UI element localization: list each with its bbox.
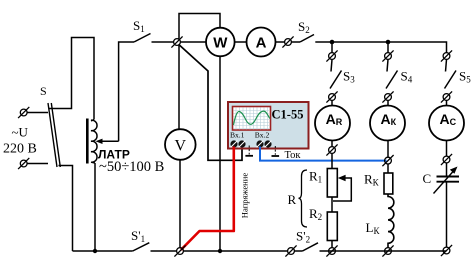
switch S'2 blade — [303, 243, 319, 251]
wire — [331, 60, 332, 72]
junction dot (K branch) — [386, 40, 391, 45]
switch S (double-pole blades) — [48, 103, 60, 167]
autotransformer ЛАТР core bar — [86, 119, 89, 164]
wire — [387, 164, 389, 173]
svg-text:W: W — [213, 34, 228, 51]
terminal — [441, 91, 452, 102]
terminal (C branch bottom) — [441, 245, 452, 256]
terminal X2 (~U input bottom) — [18, 158, 29, 169]
wire (capacitor to bus) — [446, 183, 448, 248]
wire (tap up to S1) — [119, 42, 134, 141]
resistor R2 — [327, 212, 337, 241]
svg-text:A: A — [256, 34, 267, 51]
wire — [28, 163, 49, 165]
wire (S1 to node) — [152, 41, 174, 43]
capacitor variable arrow — [434, 167, 458, 194]
terminal — [326, 91, 337, 102]
wire (R1 to R2) — [331, 197, 333, 212]
wire — [331, 101, 333, 106]
resistor R1 — [327, 169, 337, 198]
wire — [446, 141, 448, 157]
ground symbol (ch2) — [272, 146, 280, 156]
switch S1 blade — [134, 34, 151, 43]
resistor RK — [384, 173, 393, 194]
svg-text:V: V — [175, 138, 187, 155]
wire — [446, 60, 447, 72]
terminal (blue wire junction) — [382, 155, 393, 166]
top bus wire — [315, 42, 446, 53]
C branch: terminal below top bus corner — [441, 50, 452, 61]
terminal (K branch bottom) — [382, 245, 393, 256]
wire (winding bottom to bottom bus) — [94, 163, 96, 251]
red wire (scope voltage probe) — [181, 147, 234, 250]
svg-text:~50÷100 В: ~50÷100 В — [99, 159, 164, 175]
junction dot (R branch) — [330, 40, 335, 45]
wire (node to W) — [181, 41, 206, 43]
wire (R2 to bus) — [331, 241, 333, 248]
switch S5 blade — [445, 71, 457, 89]
svg-text:Вх.1: Вх.1 — [230, 131, 245, 140]
svg-text:~U: ~U — [12, 125, 29, 140]
wire — [446, 101, 448, 106]
wire (upper pole to primary loop) — [49, 38, 94, 120]
terminal — [382, 91, 393, 102]
terminal (S2 left) — [282, 36, 293, 47]
ammeter A — [247, 28, 276, 57]
scope terminal Вх.2 b — [265, 141, 272, 148]
oscilloscope C1-55 body — [228, 102, 309, 149]
ammeter AC — [429, 106, 464, 141]
node terminal (bottom left) — [174, 245, 185, 256]
wire (W to A) — [235, 41, 247, 43]
blue wire (scope current probe Ток) — [260, 147, 387, 161]
capacitor C plates — [437, 177, 460, 182]
terminal — [441, 154, 452, 165]
terminal X1 (~U input top) — [18, 107, 29, 118]
svg-text:220 В: 220 В — [3, 142, 37, 157]
wattmeter W — [206, 28, 235, 57]
terminal — [382, 50, 393, 61]
terminal — [326, 50, 337, 61]
wire (V branch from node) — [178, 46, 180, 130]
scope terminal Вх.1 b — [239, 141, 246, 148]
bottom bus wire (right section) — [320, 250, 447, 252]
wire — [331, 141, 333, 147]
junction dot — [218, 249, 222, 253]
ЛАТР tap arrow — [96, 139, 119, 144]
wire — [387, 60, 388, 72]
svg-text:S: S — [40, 84, 47, 98]
wire (W current coil down to bottom bus) — [219, 56, 221, 251]
svg-text:Вх.2: Вх.2 — [255, 131, 270, 140]
potentiometer wiper arrow — [333, 175, 351, 201]
ammeter AK — [370, 106, 405, 141]
switch S'1 blade — [133, 243, 150, 251]
wire (scope ch1 to top node: diagonal and down) — [179, 44, 243, 160]
switch S2 blade — [300, 35, 314, 43]
wire — [295, 250, 303, 252]
terminal — [326, 144, 337, 155]
bottom bus wire (left of S'1) — [73, 250, 133, 252]
bottom bus wire (S'1 to node) — [151, 250, 177, 252]
autotransformer ЛАТР winding — [91, 120, 97, 164]
wire (A to S2 terminal) — [276, 41, 285, 43]
R branch: wire from bus dot — [331, 42, 333, 53]
oscilloscope screen — [233, 107, 271, 131]
svg-text:С1-55: С1-55 — [272, 108, 304, 122]
switch S3 blade — [330, 71, 342, 89]
wattmeter voltage-coil loop — [179, 14, 220, 39]
svg-text:Ток: Ток — [285, 150, 302, 161]
scope terminal Вх.2 a — [257, 141, 264, 148]
ammeter AR — [315, 106, 350, 141]
terminal (R branch bottom) — [326, 245, 337, 256]
K branch: wire from bus dot — [387, 42, 389, 53]
junction dot — [93, 249, 97, 253]
inductor LK — [388, 194, 394, 248]
wire — [331, 154, 333, 169]
svg-text:С: С — [423, 171, 432, 186]
node terminal (top left) — [171, 36, 182, 47]
wire — [28, 112, 49, 114]
scope terminal Вх.1 a — [231, 141, 238, 148]
voltmeter V — [165, 129, 196, 160]
wire (lower pole down to bottom bus) — [59, 166, 73, 252]
bottom bus wire (node to S'2) — [184, 250, 288, 252]
svg-text:Напряжение: Напряжение — [240, 173, 250, 219]
terminal (S'2 left) — [285, 245, 296, 256]
svg-text:R: R — [288, 192, 297, 207]
switch S4 blade — [386, 71, 398, 89]
wire — [387, 101, 389, 106]
wire (V down to bottom node) — [179, 160, 181, 248]
wire — [446, 163, 448, 176]
wire — [387, 141, 389, 158]
ground symbol (ch1) — [245, 146, 253, 156]
brace R group — [299, 170, 308, 227]
wire — [292, 41, 301, 43]
